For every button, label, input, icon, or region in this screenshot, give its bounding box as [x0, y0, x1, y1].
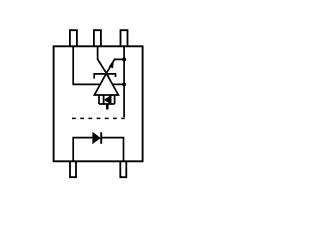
- protection diode cathode bar: [103, 96, 105, 104]
- photothyristor cathode bar with bent ends: [94, 74, 115, 79]
- junction dot (right rail at gate wire): [122, 83, 126, 87]
- stub toward isolation barrier: [106, 104, 109, 110]
- junction dot (right rail at cathode branch): [122, 57, 126, 61]
- wire: gate rail from top-left pin (down then right): [73, 46, 124, 84]
- photothyristor triangle: [94, 73, 118, 95]
- pin (top middle): [94, 30, 101, 46]
- wire: left leg under triangle: [98, 95, 100, 104]
- package outline: [54, 46, 143, 161]
- LED (filled triangle pointing right): [93, 132, 101, 144]
- wire: top-middle pin to thyristor anode (vertical + diagonal crossing): [98, 46, 109, 77]
- wire: bottom connecting line under triangle: [99, 103, 115, 105]
- protection diode (filled, pointing left): [105, 95, 112, 104]
- pin (bottom right): [120, 161, 126, 177]
- wire: LED cathode side (right then down to bottom-right pin): [101, 138, 123, 162]
- pin (top left): [70, 30, 77, 46]
- pin (top right): [121, 30, 128, 46]
- wire: right leg under triangle: [114, 95, 116, 104]
- wire: cathode arrow branch (diagonal then horizontal to right rail): [106, 59, 124, 73]
- LED cathode bar: [100, 132, 102, 144]
- arrowhead on cathode branch: [110, 61, 114, 68]
- wire: right rail from top-right pin down to isolation barrier: [123, 46, 125, 117]
- wire: LED anode side (down from bottom-left pin, then right): [73, 138, 92, 162]
- isolation barrier (dashed line): [72, 117, 125, 119]
- pin (bottom left): [70, 161, 76, 177]
